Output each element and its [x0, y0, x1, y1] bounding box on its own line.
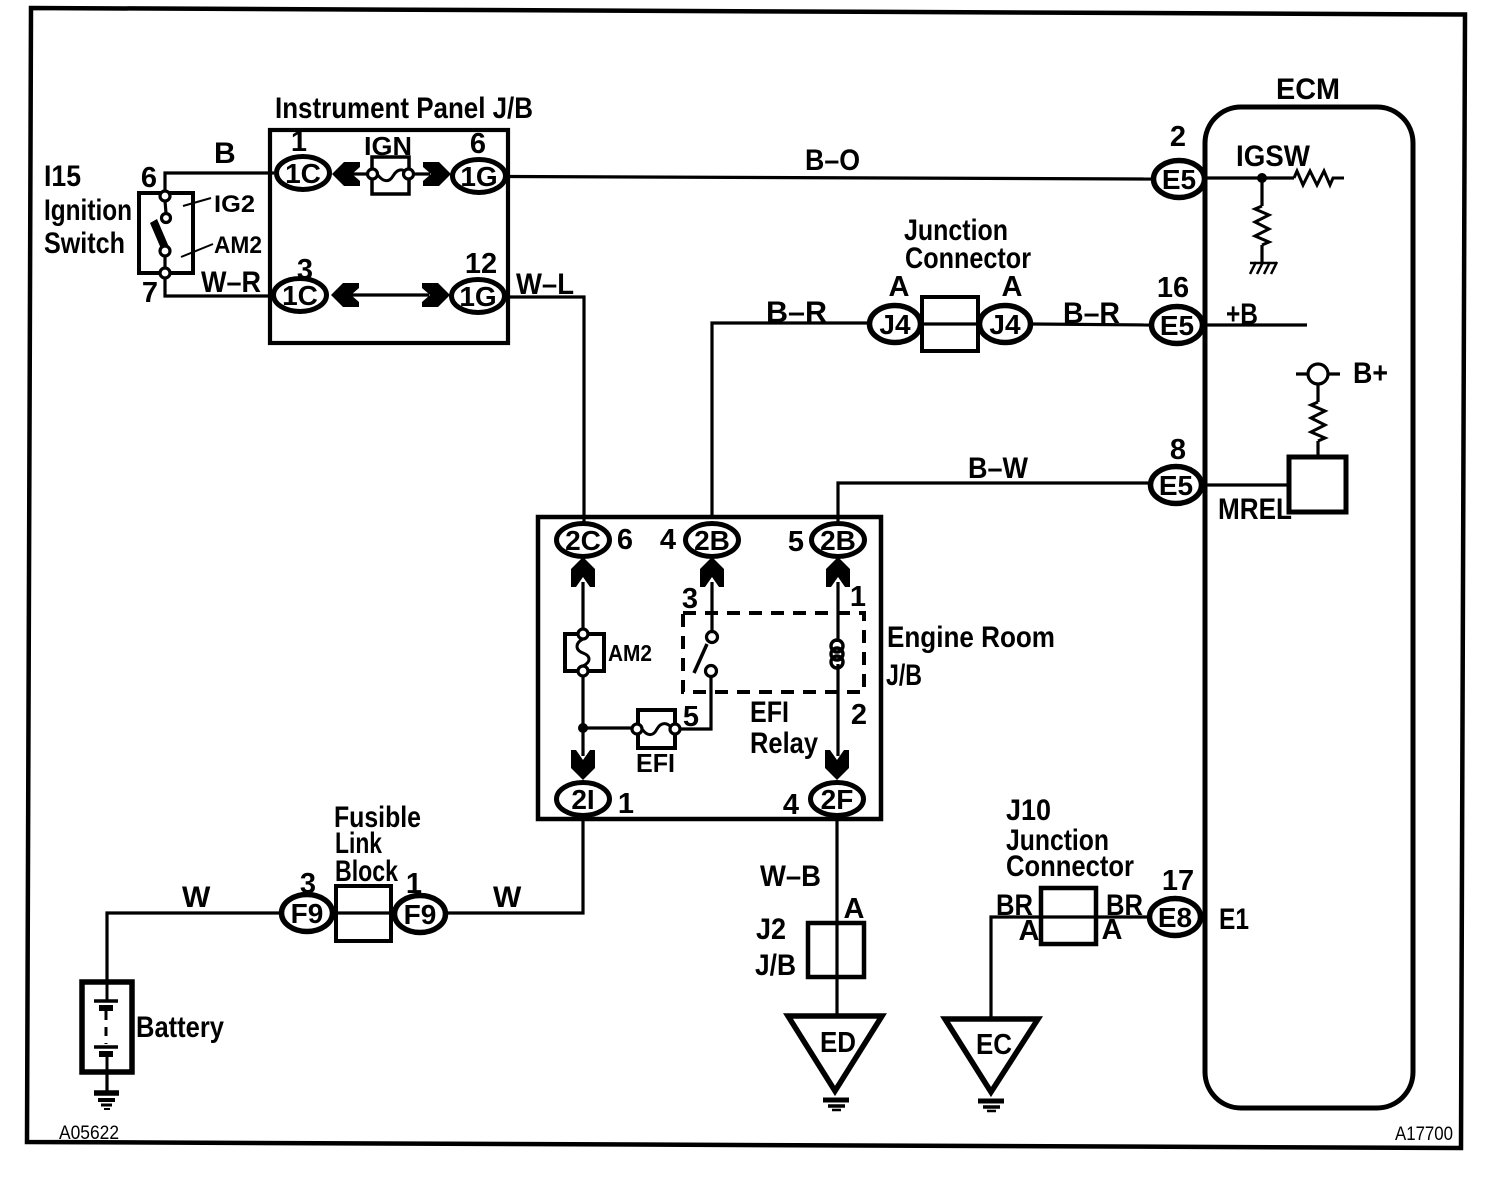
IGSW label: [1236, 140, 1311, 173]
wire label W-L: [516, 268, 574, 301]
pin 6 label: [141, 162, 157, 194]
fuse AM2: [565, 629, 604, 676]
svg-text:4: 4: [783, 789, 799, 821]
svg-text:7: 7: [142, 277, 158, 309]
svg-text:A: A: [1002, 271, 1023, 303]
wire E5-2 to IGSW node: [1207, 176, 1294, 179]
J10 pin A label left: [1019, 915, 1040, 947]
J2 pin A label: [844, 893, 865, 925]
svg-text:Connector: Connector: [1006, 850, 1134, 883]
svg-text:A17700: A17700: [1395, 1124, 1453, 1145]
junction connector J4 left pin A label: [889, 271, 910, 303]
connector E5 pin 2: [1154, 161, 1205, 198]
svg-text:3: 3: [682, 583, 698, 615]
arrow up into 2B5: [826, 557, 850, 587]
svg-text:MREL: MREL: [1218, 493, 1292, 526]
wire from EC up to J10: [991, 917, 1041, 1019]
svg-text:EFI: EFI: [636, 748, 675, 778]
connector 2F: [811, 783, 864, 816]
fusible link pin 3 label: [300, 868, 316, 900]
svg-text:6: 6: [470, 128, 486, 160]
svg-text:J/B: J/B: [886, 659, 922, 692]
wire label W left: [182, 881, 211, 914]
Fusible Link Block title: [334, 801, 421, 888]
pin 17 label: [1162, 865, 1194, 897]
wire E5-8 to MREL: [1204, 483, 1289, 486]
ignition switch I15 label: [44, 160, 132, 260]
svg-text:1G: 1G: [460, 161, 497, 192]
svg-text:Relay: Relay: [750, 727, 818, 760]
EFI relay dashed body: [683, 613, 864, 692]
Engine Room J/B box: [538, 517, 881, 819]
ECM body: [1205, 107, 1413, 1108]
wire IGSW node down: [1260, 178, 1263, 206]
IG2 label: [214, 191, 255, 218]
svg-text:ED: ED: [820, 1027, 856, 1059]
wire relay coil down to 2F: [836, 664, 839, 756]
ground IGSW: [1250, 262, 1277, 274]
BR label right: [1106, 889, 1143, 922]
svg-text:17: 17: [1162, 865, 1194, 897]
svg-text:2B: 2B: [694, 525, 730, 556]
connector 2B pin 4: [686, 524, 739, 557]
IG2 leader line: [183, 198, 211, 206]
pin 2 label: [1170, 121, 1186, 153]
svg-text:J4: J4: [989, 309, 1021, 340]
svg-text:A: A: [844, 893, 865, 925]
svg-text:W: W: [493, 881, 522, 914]
B+ terminal circle: [1296, 364, 1340, 384]
resistor IGSW pulldown: [1255, 206, 1269, 264]
wire label B-R right: [1063, 297, 1120, 330]
connector E8 pin 17: [1150, 899, 1201, 936]
svg-text:A: A: [889, 271, 910, 303]
fuse EFI: [632, 710, 680, 748]
svg-text:EFI: EFI: [750, 696, 789, 729]
svg-text:2C: 2C: [565, 525, 601, 556]
wire AM2 fuse down to 2I: [581, 676, 584, 756]
arrow up into 2C: [571, 557, 595, 587]
ignition switch contact IG2: [162, 201, 171, 223]
wire label B-R left: [766, 296, 827, 329]
fuse AM2 label: [608, 640, 652, 666]
svg-text:IGSW: IGSW: [1236, 140, 1311, 173]
svg-text:Block: Block: [335, 855, 398, 888]
J10 pin A label right: [1102, 914, 1123, 946]
wire B+ down: [1316, 384, 1319, 402]
svg-text:J10: J10: [1006, 794, 1051, 827]
node junction dot EFI branch: [578, 723, 588, 733]
svg-text:I15: I15: [44, 160, 81, 193]
wire B from pin 6 to 1C: [165, 173, 274, 191]
wire B-W from 2B5 to E5-8: [838, 483, 1148, 521]
svg-text:AM2: AM2: [214, 232, 262, 259]
junction connector J4 left: [870, 306, 921, 343]
svg-text:A: A: [1019, 915, 1040, 947]
relay pin 5 label: [683, 701, 699, 733]
svg-text:J2: J2: [756, 913, 786, 946]
E1 label: [1219, 903, 1249, 936]
svg-text:F9: F9: [291, 898, 324, 929]
wire branch to EFI fuse: [583, 726, 634, 729]
pin 6 label above 1G: [470, 128, 486, 160]
wire W-L from 1G12 down to 2C: [507, 297, 584, 525]
Engine Room J/B title: [886, 621, 1055, 692]
wire EFI fuse to relay pin 5: [680, 676, 711, 729]
ground triangle ED: [788, 1016, 882, 1091]
ECM title: [1276, 73, 1340, 106]
svg-text:6: 6: [141, 162, 157, 194]
svg-text:F9: F9: [404, 899, 437, 930]
pin 1 label of 2I: [618, 788, 634, 820]
wire W-B from 2F down to ED: [835, 819, 838, 1016]
J10 Junction Connector title: [1006, 794, 1134, 883]
ignition switch contact pin 6: [160, 191, 170, 201]
svg-text:J/B: J/B: [755, 949, 796, 982]
svg-text:12: 12: [465, 248, 497, 280]
connector 2I: [557, 783, 610, 816]
wire from 2I down to fusible link: [448, 819, 583, 913]
junction connector J4 right pin A label: [1002, 271, 1023, 303]
+B label: [1226, 298, 1258, 331]
svg-text:1: 1: [850, 581, 866, 613]
ground marks ED: [823, 1100, 849, 1110]
svg-text:B–W: B–W: [968, 452, 1029, 485]
svg-text:W–R: W–R: [201, 266, 261, 299]
resistor B+: [1311, 402, 1325, 457]
wire +B stub: [1205, 323, 1307, 326]
wire 2B5 down to relay coil: [836, 582, 839, 642]
svg-text:E5: E5: [1159, 470, 1193, 501]
arrow down into 2F: [825, 750, 849, 780]
arrow toward 1G pin6: [413, 162, 451, 186]
svg-text:2B: 2B: [820, 525, 856, 556]
pin 8 label: [1170, 434, 1186, 466]
wire B-O from 1G6 to ECM E5-2: [508, 177, 1151, 180]
svg-text:1C: 1C: [285, 158, 321, 189]
wire B-R from 2B4 up to J4: [712, 323, 868, 519]
svg-text:B–R: B–R: [766, 296, 827, 329]
svg-text:Engine Room: Engine Room: [887, 621, 1055, 654]
arrow down into 2I: [571, 750, 595, 780]
svg-text:5: 5: [788, 526, 804, 558]
svg-text:A05622: A05622: [59, 1123, 119, 1144]
pin 3 label: [297, 254, 313, 286]
svg-text:1: 1: [618, 788, 634, 820]
wire 2B4 down to relay switch: [710, 582, 713, 632]
svg-text:2F: 2F: [821, 784, 854, 815]
wire B-R from J4 to E5-16: [1033, 324, 1149, 325]
junction connector body: [922, 297, 978, 351]
fuse EFI label: [636, 748, 675, 778]
wire label W-B: [760, 860, 821, 893]
svg-text:B+: B+: [1353, 357, 1388, 390]
connector 2B pin 5: [812, 524, 865, 557]
relay coil: [831, 640, 843, 668]
wire label W right: [493, 881, 522, 914]
connector 1G pin 12: [452, 280, 505, 313]
svg-text:AM2: AM2: [608, 640, 652, 666]
svg-text:B–O: B–O: [805, 144, 860, 177]
pin 5 label of 2B: [788, 526, 804, 558]
MREL label: [1218, 493, 1292, 526]
relay pin 2 label: [851, 699, 867, 731]
wire label B-W: [968, 452, 1029, 485]
connector 1C pin 3: [274, 279, 327, 312]
svg-text:A: A: [1102, 914, 1123, 946]
svg-text:16: 16: [1157, 272, 1189, 304]
pin 1 label: [291, 126, 307, 158]
B+ label: [1353, 357, 1388, 390]
relay pin 1 label: [850, 581, 866, 613]
svg-text:2: 2: [1170, 121, 1186, 153]
arrow toward 1C pin1: [332, 162, 368, 186]
node junction dot IGSW: [1257, 173, 1267, 183]
svg-text:4: 4: [660, 524, 676, 556]
svg-text:W: W: [182, 881, 211, 914]
junction connector J10 body: [1041, 888, 1096, 944]
wire battery to ground: [105, 1072, 108, 1092]
battery label: [136, 1011, 224, 1044]
ignition switch contact AM2: [160, 246, 170, 268]
diagram code A17700: [1395, 1124, 1453, 1145]
resistor IGSW series: [1294, 171, 1344, 185]
relay switch contact top: [707, 632, 718, 643]
fuse IGN label: [364, 131, 412, 161]
ground triangle EC: [945, 1019, 1038, 1092]
wire W from battery to F9: [107, 913, 279, 984]
pin 4 label of 2F: [783, 789, 799, 821]
svg-text:Ignition: Ignition: [44, 194, 132, 227]
svg-text:W–B: W–B: [760, 860, 821, 893]
wire label B: [214, 137, 236, 170]
ignition switch I15 body: [139, 193, 193, 273]
wire label B-O: [805, 144, 860, 177]
svg-text:Switch: Switch: [44, 227, 125, 260]
svg-text:W–L: W–L: [516, 268, 574, 301]
diagram code A05622: [59, 1123, 119, 1144]
pin 12 label: [465, 248, 497, 280]
svg-text:E1: E1: [1219, 903, 1249, 936]
svg-text:E5: E5: [1162, 164, 1196, 195]
junction block J2 body: [808, 923, 864, 977]
fuse IGN: [368, 157, 414, 194]
svg-text:E5: E5: [1160, 310, 1194, 341]
wire label W-R: [201, 266, 261, 299]
ground marks EC: [978, 1101, 1004, 1111]
svg-text:ECM: ECM: [1276, 73, 1340, 106]
arrow toward 1C pin3: [331, 283, 429, 307]
connector 1C pin 1: [277, 157, 330, 190]
wire J10 to E8: [1096, 915, 1148, 918]
arrow up into 2B4: [700, 557, 724, 587]
EFI Relay title: [750, 696, 818, 760]
svg-text:1G: 1G: [459, 281, 496, 312]
pin 6 label of 2C: [617, 524, 633, 556]
ignition switch blade: [150, 219, 169, 251]
svg-text:3: 3: [297, 254, 313, 286]
BR label left: [996, 889, 1033, 922]
connector 2C: [557, 524, 610, 557]
svg-text:6: 6: [617, 524, 633, 556]
wire 2C to AM2 fuse: [581, 582, 584, 632]
AM2 leader line: [181, 244, 213, 257]
svg-text:EC: EC: [976, 1029, 1012, 1061]
svg-text:B–R: B–R: [1063, 297, 1120, 330]
pin 4 label of 2B: [660, 524, 676, 556]
relay pin 3 label: [682, 583, 698, 615]
relay switch contact bottom: [706, 666, 717, 677]
connector F9 left: [282, 895, 333, 932]
relay switch blade: [694, 644, 707, 673]
connector 1G pin 6: [453, 160, 506, 193]
svg-text:1: 1: [291, 126, 307, 158]
fusible link pin 1 label: [406, 868, 422, 900]
svg-text:E8: E8: [1158, 902, 1192, 933]
J2 J/B label: [755, 913, 796, 982]
wire W-R from pin 7 to 1C: [165, 278, 272, 296]
Instrument Panel J/B title: [275, 92, 533, 125]
AM2 label: [214, 232, 262, 259]
svg-text:Instrument Panel J/B: Instrument Panel J/B: [275, 92, 533, 125]
svg-text:5: 5: [683, 701, 699, 733]
connector E5 pin 8: [1151, 467, 1202, 504]
svg-text:IG2: IG2: [214, 191, 255, 218]
connector F9 right: [395, 896, 446, 933]
svg-text:IGN: IGN: [364, 131, 412, 161]
pin 16 label: [1157, 272, 1189, 304]
svg-text:2: 2: [851, 699, 867, 731]
Junction Connector title: [904, 214, 1031, 275]
MREL relay box: [1289, 457, 1346, 512]
Instrument Panel J/B box: [270, 130, 508, 343]
arrow toward 1G pin12: [422, 283, 450, 307]
battery body: [82, 982, 132, 1072]
svg-text:B: B: [214, 137, 236, 170]
svg-text:8: 8: [1170, 434, 1186, 466]
junction connector J4 right: [980, 306, 1031, 343]
svg-text:Battery: Battery: [136, 1011, 224, 1044]
pin 7 label: [142, 277, 158, 309]
connector E5 pin 16: [1152, 307, 1203, 344]
ignition switch contact pin 7: [160, 268, 170, 278]
battery cells: [94, 984, 118, 1072]
svg-text:2I: 2I: [571, 784, 594, 815]
fusible link block body: [336, 886, 391, 941]
svg-text:J4: J4: [879, 309, 911, 340]
ground battery: [94, 1093, 119, 1109]
